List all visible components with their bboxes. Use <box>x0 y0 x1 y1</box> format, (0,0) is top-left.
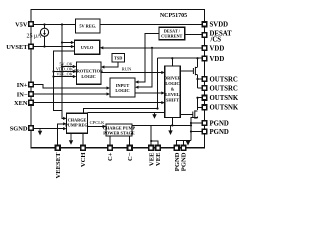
ground arrow under charge pump reg <box>70 133 72 140</box>
ground arrow at SGND <box>39 129 41 132</box>
transistor Q2 low side <box>193 110 198 118</box>
svg-text:25 μA: 25 μA <box>26 33 42 39</box>
svg-text:OUTSRC: OUTSRC <box>210 85 238 92</box>
pin V5V <box>29 22 34 27</box>
wire PGND bottom bridge <box>177 141 191 146</box>
wire VDD pin to UVLO <box>102 47 202 49</box>
pin VDD <box>202 46 207 51</box>
wire RUN protection to driver <box>101 72 163 74</box>
arrow into DRIVER (XEN) <box>161 101 165 104</box>
wire XEN to driver logic <box>34 102 164 104</box>
pin PGND right 2 <box>202 129 207 134</box>
arrow into CP REG (VEESET) <box>63 122 67 125</box>
wire sink rail <box>197 98 199 110</box>
wire current source top lead <box>44 25 46 29</box>
block DESAT / CURRENT <box>159 27 185 39</box>
pin IN+ <box>29 82 34 87</box>
arrow into PROTECTION right (TSD) <box>101 65 105 68</box>
transistor Q1 high side <box>193 67 197 75</box>
svg-text:DRIVER: DRIVER <box>164 76 182 81</box>
wire V5V vertical bus <box>62 25 65 119</box>
svg-text:IN+: IN+ <box>17 82 28 89</box>
pin DESAT/CS <box>202 33 207 38</box>
wire VEESET riser <box>58 124 65 145</box>
wire DESAT fault to input logic <box>137 34 159 83</box>
svg-text:V5V: V5V <box>15 21 28 28</box>
wire source rail upper <box>197 58 199 67</box>
pin VEE <box>149 146 154 151</box>
svg-text:OUTSNK: OUTSNK <box>210 105 239 112</box>
arrow into PROTECTION (VDD_OK) <box>73 70 77 73</box>
svg-text:XEN: XEN <box>14 100 28 107</box>
wire 5V_OK into protection <box>62 66 75 68</box>
svg-text:PGND: PGND <box>210 120 229 127</box>
ground arrow on VEE rail <box>170 125 172 130</box>
wire DESAT box to DESAT/CS pin <box>185 34 202 36</box>
arrow into DRIVER (input logic) <box>161 91 165 94</box>
arrow into INPUT LOGIC (IN+) <box>107 86 111 89</box>
pin labels right side <box>210 22 239 136</box>
arrow into UVLO (UVSET) <box>71 45 75 48</box>
svg-text:OUTSNK: OUTSNK <box>210 95 239 102</box>
wire VDD2 vertical <box>157 58 159 108</box>
arrow into PROTECTION (VEE_OK) <box>73 75 77 78</box>
arrow into INPUT LOGIC right (desat) <box>135 80 139 83</box>
block PROTECTION LOGIC <box>76 62 101 84</box>
pin VCH <box>81 146 86 151</box>
wire VDD branch to input logic <box>137 48 152 87</box>
svg-text:LEVEL: LEVEL <box>165 92 180 97</box>
pin SVDD <box>202 22 207 27</box>
svg-text:5V REG.: 5V REG. <box>79 24 96 29</box>
arrow into POWER STAGE (CPCLK) <box>103 125 107 128</box>
block UVLO <box>74 40 99 54</box>
ground arrows <box>38 113 190 146</box>
wire IN+ to input logic <box>34 85 109 89</box>
pin OUTSNK <box>202 95 207 100</box>
arrow into CP REG (SGND) <box>63 127 67 130</box>
wire C- stub <box>129 136 131 145</box>
wire VDD_OK into protection <box>54 71 75 73</box>
wire Q2 gate lead <box>180 114 193 116</box>
svg-text:VDD: VDD <box>210 56 225 63</box>
svg-text:LOGIC: LOGIC <box>165 81 179 86</box>
wire Q1 gate lead <box>180 70 193 72</box>
pin VEE 2 <box>156 146 161 151</box>
svg-text:UVLO: UVLO <box>81 45 94 50</box>
svg-text:NCP51705: NCP51705 <box>160 13 187 19</box>
wire SGND into charge pump reg <box>34 128 65 130</box>
svg-text:VEE: VEE <box>155 152 162 166</box>
pin C- <box>127 146 132 151</box>
pin UVSET <box>29 44 34 49</box>
arrow into PROTECTION (5V_OK) <box>73 65 77 68</box>
wire VEE pins bridge <box>151 141 158 145</box>
wire V5V branch to UVLO <box>62 42 73 44</box>
wire current source bottom lead <box>44 36 46 46</box>
wire UVSET to UVLO <box>34 46 75 48</box>
pin PGND bottom 2 <box>181 146 186 151</box>
pin PGND right <box>202 121 207 126</box>
wire VEE_OK into protection <box>54 76 75 78</box>
svg-text:SHIFT: SHIFT <box>166 98 179 103</box>
svg-text:PGND: PGND <box>181 152 188 171</box>
wire PGND bottom stub 2 <box>183 141 185 146</box>
pin IN- <box>29 92 34 97</box>
wire IN- to input logic <box>34 93 109 95</box>
svg-text:CPCLK: CPCLK <box>90 120 105 125</box>
block TSD <box>112 54 125 63</box>
arrowheads <box>63 41 165 130</box>
block CHARGE PUMP REG <box>67 113 88 133</box>
wire CPCLK to power stage <box>87 125 104 127</box>
pin C+ <box>108 146 113 151</box>
pin labels left side <box>6 21 28 132</box>
wire OUTSNK stub 1 <box>198 97 202 99</box>
ground arrow on level shift supply <box>154 113 156 115</box>
wire OUTSRC stub 2 <box>198 87 202 89</box>
block CHARGE PUMP POWER STAGE <box>106 124 132 136</box>
wire VCH stub <box>82 133 84 145</box>
pin OUTSRC 2 <box>202 86 207 91</box>
wire Q2 source to PGND <box>191 117 198 141</box>
wire C+ stub <box>109 136 111 145</box>
block 5V REG <box>75 19 100 33</box>
pin squares <box>29 22 207 150</box>
svg-text:SGND: SGND <box>10 125 28 132</box>
svg-text:PUMP REG.: PUMP REG. <box>65 123 89 128</box>
svg-text:UVSET: UVSET <box>6 44 28 51</box>
svg-text:LOGIC: LOGIC <box>81 74 95 79</box>
signal labels <box>56 62 73 77</box>
IC outline border <box>31 10 205 148</box>
wire driver box top stub <box>171 58 173 66</box>
svg-text:C−: C− <box>127 152 134 161</box>
svg-text:SVDD: SVDD <box>210 22 229 29</box>
pin PGND bottom <box>174 146 179 151</box>
wire VEE rail <box>132 124 191 126</box>
pin XEN <box>29 100 34 105</box>
svg-text:POWER STAGE: POWER STAGE <box>103 131 135 136</box>
arrow into UVLO (V5V) <box>71 41 75 44</box>
wire TSD to protection logic <box>104 62 118 67</box>
wire input logic output to driver <box>135 92 163 94</box>
svg-text:VEESET: VEESET <box>55 152 62 179</box>
svg-text:RUN: RUN <box>122 67 132 72</box>
arrow into UVLO right (VDD) <box>100 46 104 49</box>
wire charge pump reg top feed <box>84 109 158 114</box>
svg-text:OUTSRC: OUTSRC <box>210 76 238 83</box>
svg-text:VCH: VCH <box>80 152 87 168</box>
wire PGND right stub 1 <box>191 122 202 124</box>
block DRIVER LOGIC &amp; LEVEL SHIFT <box>165 66 181 117</box>
svg-text:TSD: TSD <box>114 56 122 61</box>
wire VDD2 horizontal <box>158 57 202 59</box>
pin VEESET <box>55 146 60 151</box>
pin labels bottom (rotated) <box>55 152 188 179</box>
svg-text:PROTECTION: PROTECTION <box>74 69 104 74</box>
svg-text:LOGIC: LOGIC <box>115 88 129 93</box>
wire SVDD rail <box>100 24 202 26</box>
pin SGND <box>29 126 34 131</box>
pin OUTSRC <box>202 77 207 82</box>
arrow into CP REG (V5V bus) <box>63 117 67 120</box>
block INPUT LOGIC <box>110 78 135 97</box>
wire PGND right stub 2 <box>191 131 202 133</box>
arrow into INPUT LOGIC (IN-) <box>107 92 111 95</box>
svg-text:VDD: VDD <box>210 45 225 52</box>
wire OUTSNK stub 2 <box>198 106 202 108</box>
wire OUTSRC stub 1 <box>198 78 202 80</box>
pin OUTSNK 2 <box>202 105 207 110</box>
arrow into DRIVER (RUN) <box>161 71 165 74</box>
current source I1 25uA <box>40 28 48 36</box>
ground arrow on PGND bridge <box>187 140 189 143</box>
svg-text:&: & <box>171 87 175 92</box>
svg-text:PGND: PGND <box>210 129 229 136</box>
svg-text:/CS: /CS <box>210 37 222 44</box>
wire V5V rail <box>34 24 76 26</box>
junction dots <box>43 23 198 142</box>
wire UVLO to VDD_OK loop <box>54 51 75 111</box>
wire level shift supply line <box>87 112 164 114</box>
svg-text:VEE_OK: VEE_OK <box>56 72 72 77</box>
pin VDD 2 <box>202 56 207 61</box>
svg-text:C+: C+ <box>107 152 114 161</box>
block labels <box>65 24 182 136</box>
arrow into INPUT LOGIC right (vdd) <box>135 86 139 89</box>
wire source rail lower <box>197 75 199 88</box>
wire VEE drop to pins <box>150 125 152 145</box>
svg-text:IN−: IN− <box>17 91 28 98</box>
svg-text:CURRENT: CURRENT <box>161 33 182 38</box>
wire driver box bottom stub <box>171 117 173 125</box>
